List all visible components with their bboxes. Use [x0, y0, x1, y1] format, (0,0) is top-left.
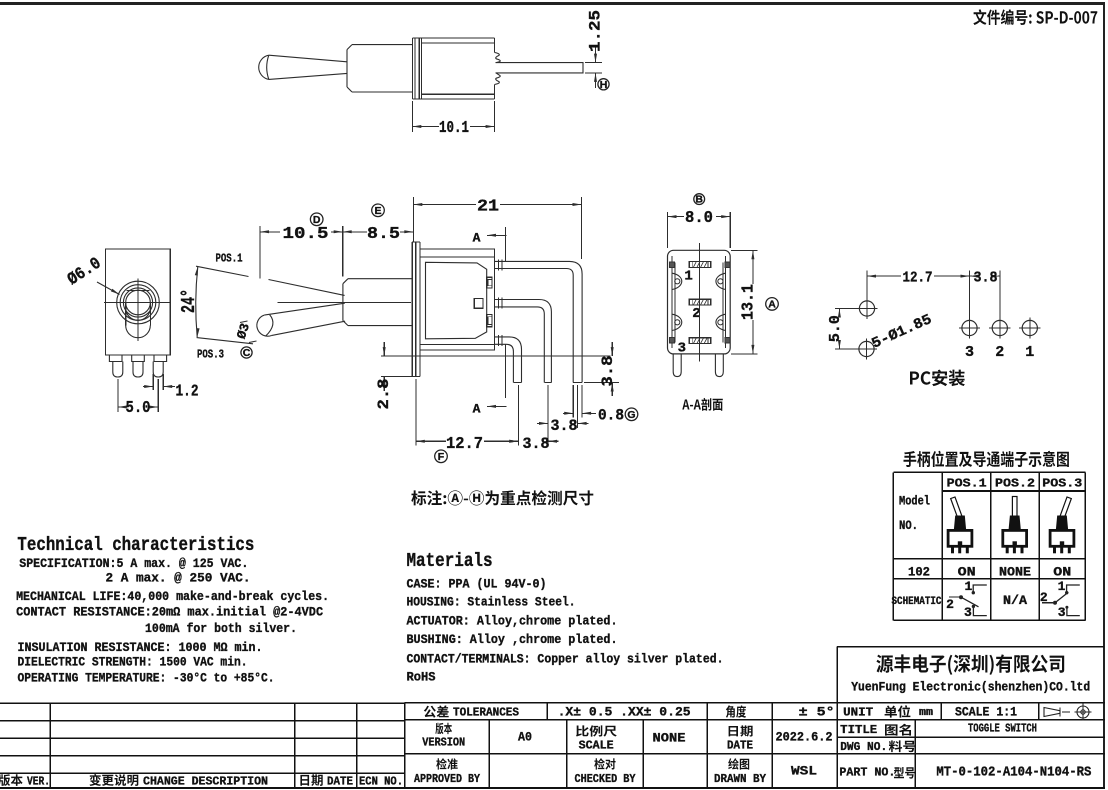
lever center axis line: [278, 301, 412, 303]
top view: lever taper: [269, 55, 347, 79]
svg-text:POS.3: POS.3: [197, 347, 224, 361]
svg-text:1.25: 1.25: [587, 10, 605, 52]
svg-text:1: 1: [1058, 579, 1066, 594]
svg-text:VER.: VER.: [27, 776, 50, 789]
svg-text:B: B: [695, 194, 703, 206]
revision table header texts: [0, 774, 403, 789]
handle position table title: [904, 451, 1069, 467]
label POS.1: [216, 251, 243, 265]
title / part number cells: [839, 722, 1091, 781]
note: A-H are key inspection dimensions: [411, 490, 593, 505]
top view: toggle lever ball end: [259, 55, 269, 79]
terminal pin 1 (top, bent): [495, 260, 582, 383]
svg-text:WSL: WSL: [791, 764, 817, 779]
svg-text:2022.6.2: 2022.6.2: [776, 730, 833, 745]
toggle switch icon POS.1: [948, 497, 972, 553]
svg-text:24°: 24°: [178, 289, 200, 313]
side view: housing side tabs: [487, 277, 492, 327]
terminal pin 2 (middle, bent): [495, 298, 552, 383]
svg-text:ECN NO.: ECN NO.: [359, 776, 403, 789]
svg-text:3.8: 3.8: [599, 356, 617, 387]
svg-text:POS.2: POS.2: [995, 476, 1035, 490]
section view centerline: [698, 243, 700, 362]
label POS.3: [197, 347, 224, 361]
svg-text:PART NO.: PART NO.: [839, 766, 895, 780]
section line A-A: [473, 227, 507, 417]
dimension 8.5 with label E: [343, 204, 414, 244]
svg-text:DATE: DATE: [727, 740, 753, 753]
pc mount holes: [856, 298, 1041, 360]
svg-text:2 A max. @ 250 VAC.: 2 A max. @ 250 VAC.: [106, 571, 251, 586]
svg-text:.X± 0.5 .XX± 0.25: .X± 0.5 .XX± 0.25: [558, 705, 691, 720]
svg-text:ACTUATOR: Alloy,chrome plated.: ACTUATOR: Alloy,chrome plated.: [407, 614, 618, 629]
svg-text:8.5: 8.5: [367, 225, 400, 244]
caption A-A section: [682, 398, 723, 411]
svg-text:NO.: NO.: [899, 518, 918, 533]
svg-text:CONTACT/TERMINALS: Copper allo: CONTACT/TERMINALS: Copper alloy silver p…: [407, 652, 724, 667]
svg-text:21: 21: [477, 197, 499, 216]
front view: body: [105, 249, 170, 355]
svg-text:8.0: 8.0: [685, 209, 713, 228]
svg-text:DATE: DATE: [327, 776, 353, 789]
svg-text:A0: A0: [518, 730, 532, 745]
svg-text:SPECIFICATION:5 A max. @ 125 V: SPECIFICATION:5 A max. @ 125 VAC.: [19, 556, 248, 571]
top view: flange washer: [412, 38, 421, 99]
side view: body: [420, 249, 495, 350]
top view: threaded bushing: [347, 45, 412, 92]
lever position 1 outline (up): [196, 266, 345, 295]
terminal pin 3 (bottom, bent): [495, 335, 522, 382]
svg-text:OPERATING TEMPERATURE: -30°C t: OPERATING TEMPERATURE: -30°C to +85°C.: [18, 671, 275, 686]
handle position table grid: [893, 472, 1085, 620]
svg-text:VERSION: VERSION: [422, 737, 465, 750]
top view: terminal pin: [496, 63, 584, 73]
svg-text:3.8: 3.8: [523, 435, 550, 453]
svg-text:12.7: 12.7: [446, 435, 483, 454]
dimension 12.7 (pc mount): [867, 270, 970, 319]
svg-text:3: 3: [965, 344, 974, 361]
svg-text:ON: ON: [958, 565, 976, 580]
third angle projection symbol: [1044, 704, 1092, 721]
svg-text:SCALE: SCALE: [579, 740, 614, 753]
svg-text:DRAWN BY: DRAWN BY: [714, 773, 766, 786]
svg-text:DWG NO.: DWG NO.: [840, 740, 887, 754]
svg-text:BUSHING: Alloy ,chrome plated.: BUSHING: Alloy ,chrome plated.: [407, 632, 618, 647]
tolerances row texts: [424, 705, 1017, 720]
svg-text:N/A: N/A: [1003, 593, 1027, 608]
dimension 5.0: [118, 379, 158, 418]
front view: bottom tabs and pins: [109, 355, 166, 377]
svg-text:CONTACT RESISTANCE:20mΩ max.in: CONTACT RESISTANCE:20mΩ max.initial @2-4…: [16, 605, 323, 620]
section view pins: [673, 354, 723, 377]
svg-text:A: A: [473, 231, 481, 246]
dimension 3.8 (pc mount): [970, 270, 1000, 319]
svg-text:0.8: 0.8: [598, 407, 624, 425]
svg-text:12.7: 12.7: [903, 270, 933, 287]
svg-text:G: G: [627, 409, 635, 421]
technical characteristics text block: [16, 534, 329, 686]
svg-text:POS.1: POS.1: [216, 251, 243, 265]
svg-text:INSULATION RESISTANCE: 1000 MΩ: INSULATION RESISTANCE: 1000 MΩ min.: [18, 640, 263, 655]
dimension 10.5 with label D: [260, 213, 343, 279]
angle dimension 24 degrees: [178, 267, 253, 344]
svg-text:mm: mm: [919, 707, 933, 719]
dimension 1.2: [143, 374, 199, 402]
svg-text:3: 3: [964, 605, 972, 620]
toggle switch icon POS.3: [1050, 497, 1074, 553]
dimension 5.0 (pc mount): [827, 309, 859, 350]
revision table grid: [0, 703, 1105, 788]
svg-text:10.5: 10.5: [283, 225, 329, 244]
dimension 10.1: [412, 101, 494, 138]
dimension 3.8 (pin2 to pin3 pitch): [508, 435, 559, 453]
document number label 文件编号: SP-D-007: [973, 9, 1097, 25]
svg-text:5.0: 5.0: [827, 315, 844, 342]
callout 5 holes diameter 1.85: [870, 312, 935, 353]
svg-text:CHANGE DESCRIPTION: CHANGE DESCRIPTION: [143, 776, 268, 789]
svg-text:TOGGLE SWITCH: TOGGLE SWITCH: [968, 722, 1037, 736]
front view: bushing circles: [104, 279, 171, 342]
approved / checked / drawn row: [414, 758, 817, 786]
dimension 13.1 with label A: [731, 250, 778, 354]
svg-text:TOLERANCES: TOLERANCES: [453, 707, 519, 720]
svg-text:CASE: PPA (UL 94V-0): CASE: PPA (UL 94V-0): [407, 577, 547, 592]
pcb reference line: [381, 356, 611, 376]
section view contact bumps: [672, 273, 726, 330]
svg-text:APPROVED BY: APPROVED BY: [414, 773, 480, 786]
svg-text:Model: Model: [899, 494, 930, 509]
svg-text:CHECKED BY: CHECKED BY: [575, 773, 636, 786]
svg-text:POS.1: POS.1: [947, 476, 987, 490]
dimension 2.8 vertical: [375, 342, 393, 410]
section view body: [668, 250, 731, 354]
svg-text:3.8: 3.8: [551, 417, 578, 435]
svg-text:H: H: [600, 79, 608, 91]
dimension 3.8 vertical (pin length below pcb): [584, 342, 619, 396]
svg-text:NONE: NONE: [653, 732, 686, 746]
svg-text:SCHEMATIC: SCHEMATIC: [892, 596, 942, 608]
side view: small window: [474, 299, 483, 309]
schematic POS.1 (2-3 closed): [946, 579, 987, 620]
svg-text:A: A: [473, 402, 481, 417]
svg-text:A: A: [768, 299, 776, 311]
svg-text:102: 102: [908, 565, 930, 580]
svg-text:C: C: [243, 347, 251, 359]
svg-text:13.1: 13.1: [740, 284, 759, 320]
svg-text:1: 1: [684, 269, 692, 285]
dimension 0.8 with label G: [563, 385, 638, 425]
svg-text:Materials: Materials: [407, 550, 493, 572]
svg-text:2.8: 2.8: [375, 379, 393, 410]
label diameter 3 with label C: [234, 321, 257, 359]
dimension 21: [413, 197, 581, 259]
toggle switch icon POS.2: [1003, 497, 1027, 554]
dimension 8.0 with label B: [668, 194, 731, 248]
svg-text:UNIT: UNIT: [843, 706, 873, 720]
side view: internal housing outline: [426, 262, 487, 339]
svg-text:MT-0-102-A104-N104-RS: MT-0-102-A104-N104-RS: [936, 766, 1091, 781]
label diameter 6.0 with leader: [65, 254, 120, 294]
svg-text:± 5°: ± 5°: [799, 705, 835, 720]
svg-text:MECHANICAL LIFE:40,000 make-an: MECHANICAL LIFE:40,000 make-and-break cy…: [16, 589, 329, 604]
svg-text:3.8: 3.8: [974, 270, 998, 287]
svg-text:D: D: [313, 214, 321, 226]
svg-text:SCALE 1:1: SCALE 1:1: [955, 706, 1017, 720]
svg-text:RoHS: RoHS: [407, 670, 436, 685]
svg-text:1: 1: [964, 579, 972, 594]
svg-text:100mA for both silver.: 100mA for both silver.: [145, 621, 297, 636]
terminal number labels 1 2 3: [678, 269, 701, 357]
top view: serrated retaining tabs: [495, 53, 501, 85]
svg-text:1.2: 1.2: [176, 383, 199, 402]
svg-text:2: 2: [995, 344, 1004, 361]
materials text block: [407, 550, 724, 685]
svg-text:ON: ON: [1053, 565, 1071, 580]
company name: [851, 654, 1090, 694]
front view: lever shaft pointing down: [126, 303, 151, 338]
svg-text:E: E: [374, 205, 381, 217]
svg-text:3: 3: [678, 341, 686, 357]
svg-text:1: 1: [1025, 344, 1034, 361]
lever position 3 bat (down) with ball tip: [257, 303, 345, 336]
side view: bushing: [343, 279, 412, 326]
svg-text:10.1: 10.1: [439, 119, 469, 138]
pc mount pin labels 3 2 1: [965, 344, 1034, 361]
svg-text:YuenFung Electronic(shenzhen)C: YuenFung Electronic(shenzhen)CO.ltd: [851, 680, 1090, 695]
title block grid: [405, 647, 1106, 789]
top view: switch body: [422, 38, 495, 99]
svg-text:NONE: NONE: [999, 565, 1031, 580]
svg-text:2: 2: [946, 597, 954, 612]
svg-text:5.0: 5.0: [126, 399, 151, 418]
dimension 12.7 with label F: [416, 379, 519, 463]
side view: mounting plate: [412, 242, 420, 377]
dimension 1.25 with label H: [585, 10, 609, 91]
svg-text:HOUSING: Stainless Steel.: HOUSING: Stainless Steel.: [407, 595, 576, 610]
version / scale / date row: [422, 723, 832, 753]
caption PC mounting: [910, 370, 965, 387]
section view hatched terminal bars 1 2 3: [689, 262, 711, 344]
svg-text:Technical characteristics: Technical characteristics: [17, 534, 254, 556]
svg-text:DIELECTRIC STRENGTH: 1500 VAC: DIELECTRIC STRENGTH: 1500 VAC min.: [18, 655, 248, 670]
svg-text:TITLE: TITLE: [840, 723, 877, 737]
schematic POS.3 (2-1 closed): [1040, 579, 1080, 620]
dimension 3.8 (pin1 to pin2 pitch): [537, 385, 589, 446]
table header texts: [892, 476, 1083, 608]
svg-text:3: 3: [1058, 605, 1066, 620]
svg-text:F: F: [438, 451, 445, 463]
svg-text:POS.3: POS.3: [1042, 476, 1082, 490]
section view wall end blocks: [670, 262, 730, 343]
